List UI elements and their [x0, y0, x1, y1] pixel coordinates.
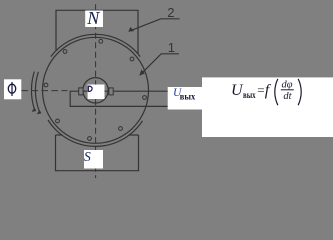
- svg-text:dt: dt: [283, 91, 292, 102]
- svg-text:S: S: [84, 149, 91, 164]
- svg-text:=: =: [257, 83, 264, 98]
- svg-text:вых: вых: [243, 90, 256, 100]
- svg-text:dφ: dφ: [282, 79, 293, 90]
- svg-text:1: 1: [168, 40, 175, 55]
- svg-text:вых: вых: [180, 91, 196, 101]
- svg-text:N: N: [86, 8, 100, 28]
- svg-text:2: 2: [167, 5, 174, 20]
